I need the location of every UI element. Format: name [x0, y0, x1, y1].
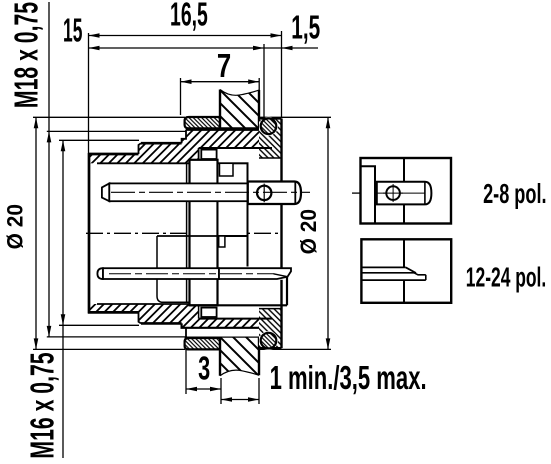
svg-text:16,5: 16,5	[170, 0, 208, 33]
svg-text:M16 x 0,75: M16 x 0,75	[24, 352, 61, 458]
svg-text:M18 x 0,75: M18 x 0,75	[8, 2, 45, 108]
svg-text:Ø 20: Ø 20	[3, 204, 28, 249]
svg-text:1 min./3,5 max.: 1 min./3,5 max.	[270, 360, 427, 396]
svg-text:12-24 pol.: 12-24 pol.	[466, 261, 546, 292]
svg-text:3: 3	[198, 350, 210, 387]
svg-text:7: 7	[217, 48, 231, 85]
svg-text:2-8 pol.: 2-8 pol.	[483, 178, 546, 209]
svg-text:Ø 20: Ø 20	[296, 209, 321, 254]
svg-text:1,5: 1,5	[291, 9, 320, 46]
svg-text:15: 15	[63, 12, 82, 50]
